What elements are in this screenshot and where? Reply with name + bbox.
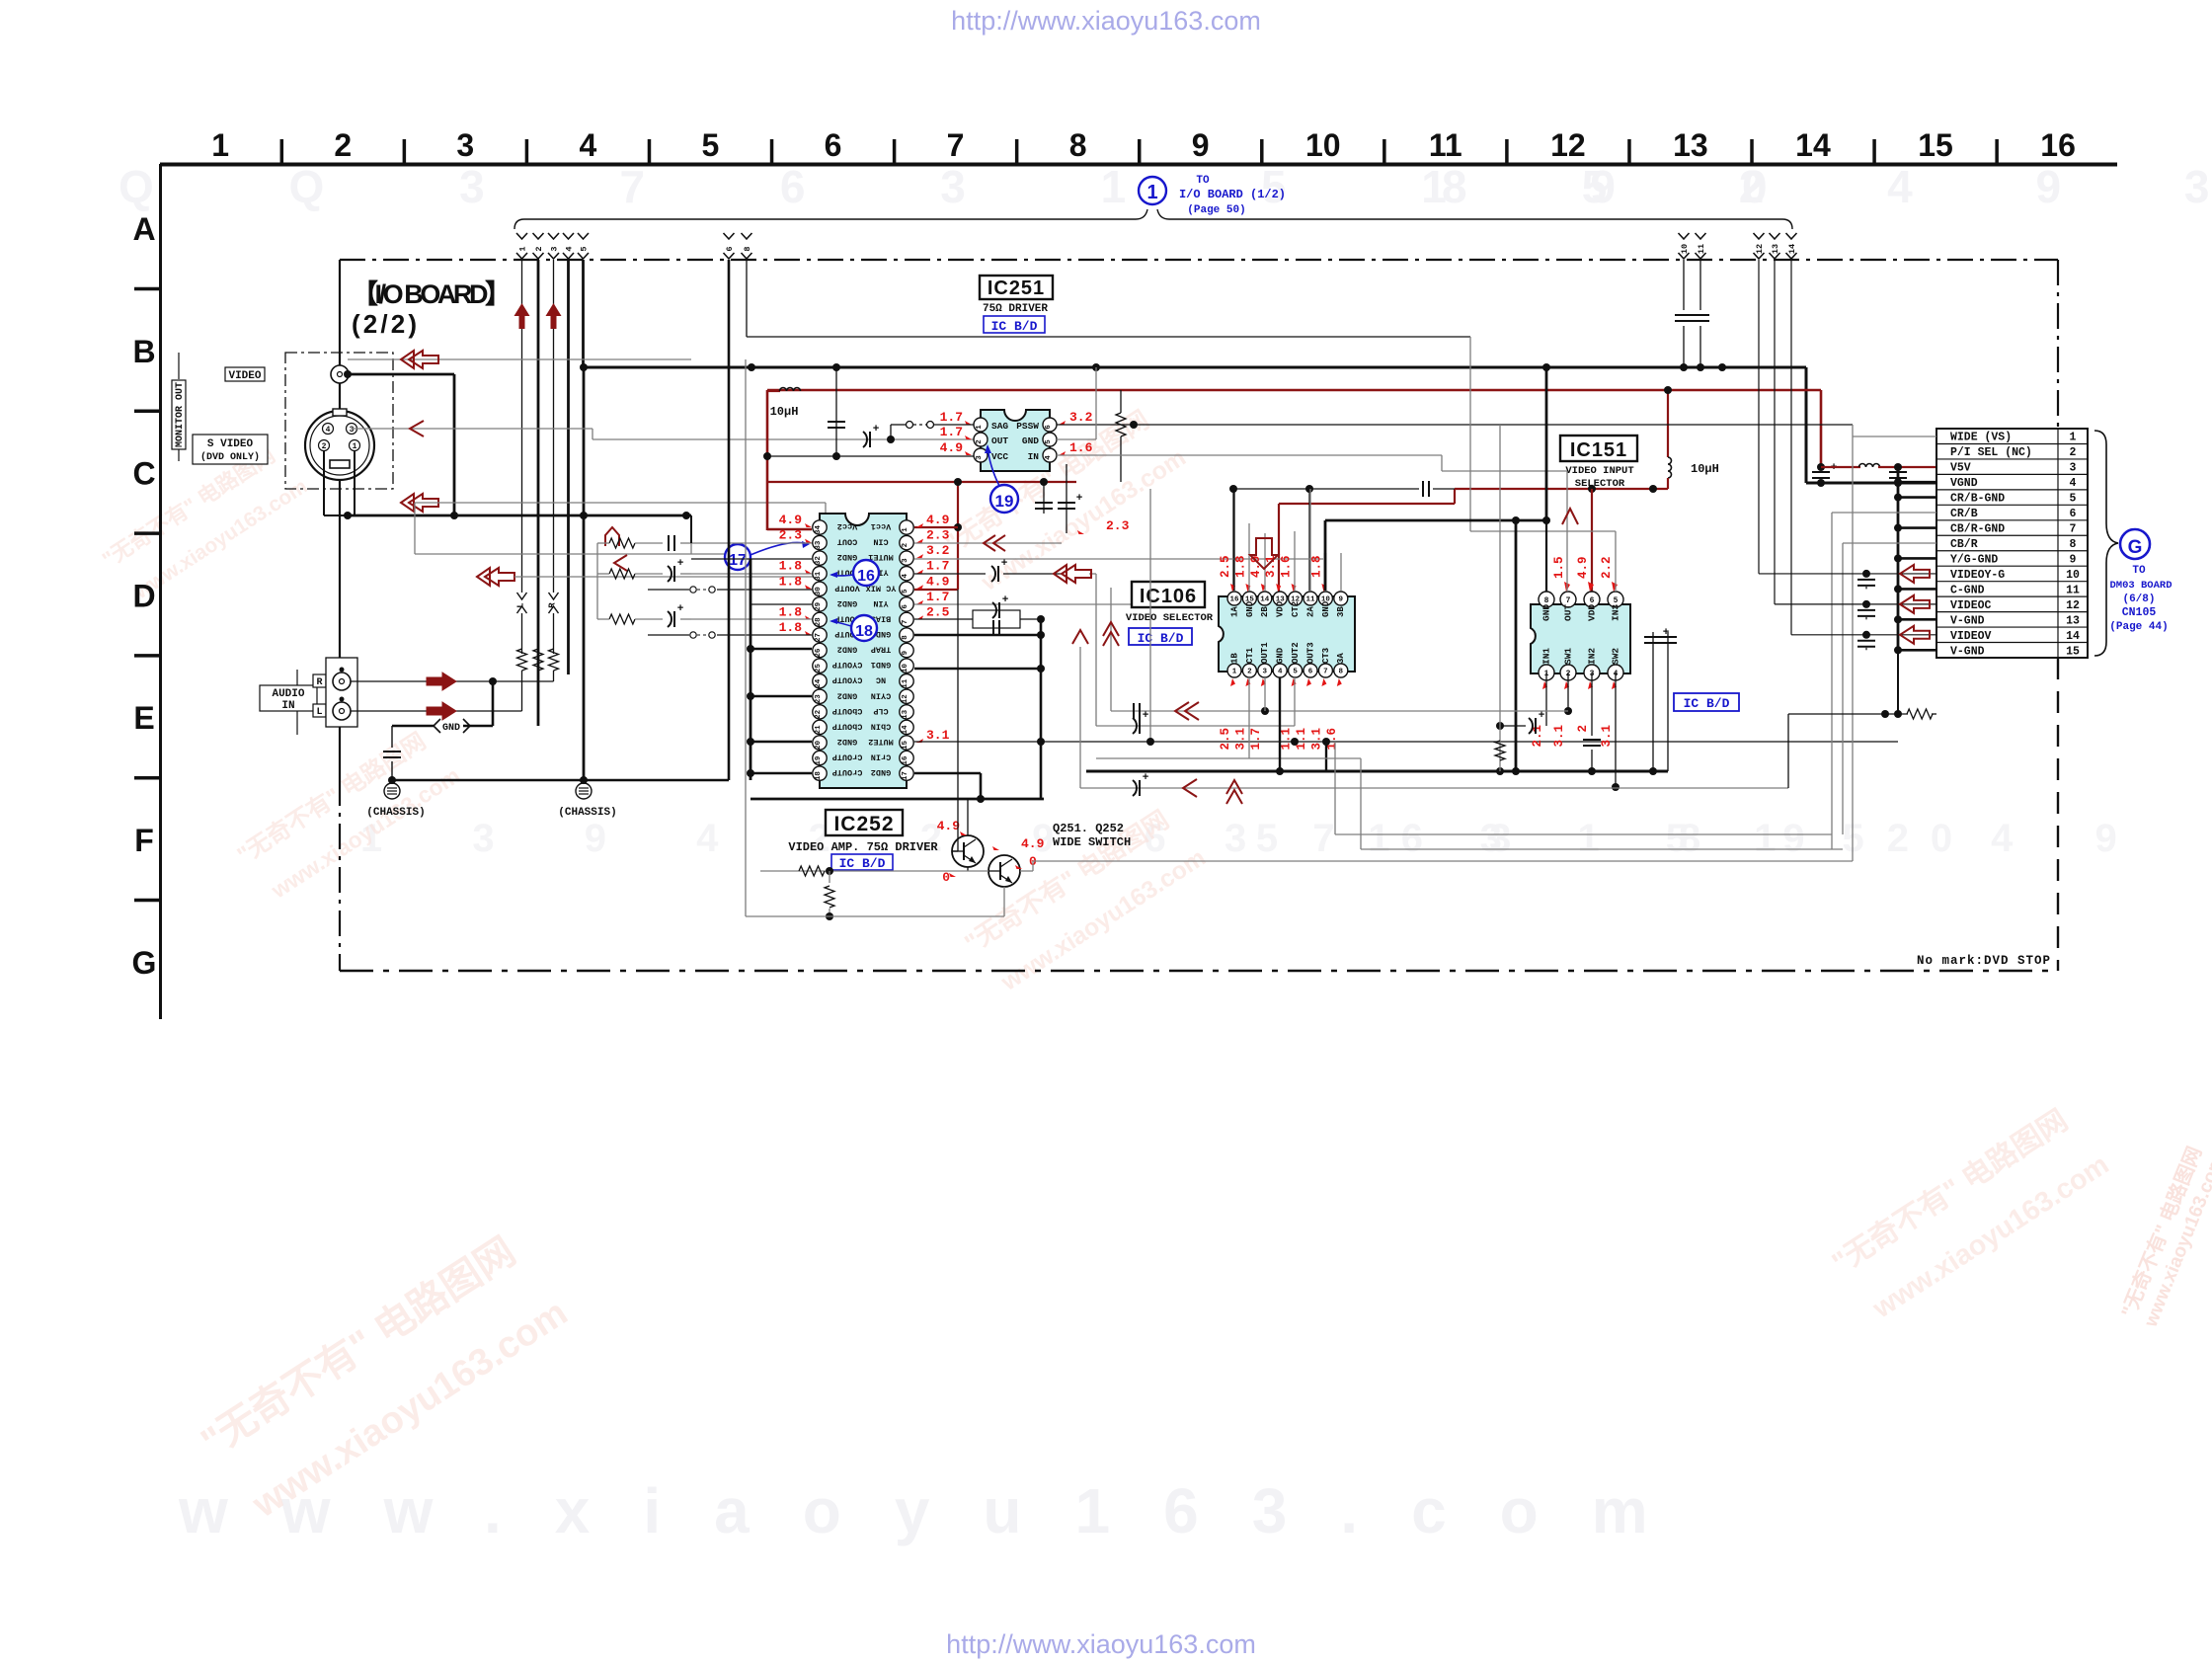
svg-text:GND2: GND2 <box>837 552 857 562</box>
svg-text:13: 13 <box>1673 127 1708 163</box>
s video label <box>193 435 268 464</box>
svg-text:Q251. Q252: Q251. Q252 <box>1053 822 1124 835</box>
svg-text:CB/R: CB/R <box>1950 538 1978 551</box>
svg-text:OUT: OUT <box>1563 604 1574 621</box>
svg-text:http://www.xiaoyu163.com: http://www.xiaoyu163.com <box>946 1629 1256 1659</box>
svg-text:OUT1: OUT1 <box>1260 642 1270 664</box>
svg-text:C-GND: C-GND <box>1950 584 1985 596</box>
svg-text:DM03 BOARD: DM03 BOARD <box>2109 580 2172 592</box>
svg-text:14: 14 <box>2066 630 2080 643</box>
svg-text:CYOUTP: CYOUTP <box>832 660 863 670</box>
svg-text:GND: GND <box>1541 604 1552 621</box>
video RCA jack J1 <box>331 365 349 383</box>
svg-text:COUT: COUT <box>837 537 857 547</box>
wire: resistors on audio lines <box>517 649 527 671</box>
svg-text:28: 28 <box>815 617 823 627</box>
svg-text:+: + <box>1143 710 1149 722</box>
svg-text:IC B/D: IC B/D <box>1684 696 1730 711</box>
IC151 body <box>1531 604 1630 673</box>
svg-text:1: 1 <box>976 425 984 430</box>
svg-text:1.8: 1.8 <box>779 574 803 589</box>
connector pins 6,8 <box>724 233 735 239</box>
svg-text:8: 8 <box>1069 127 1087 163</box>
svg-text:VIDEO AMP. 75Ω DRIVER: VIDEO AMP. 75Ω DRIVER <box>788 840 938 854</box>
svg-text:IC151: IC151 <box>1570 439 1627 461</box>
svg-text:0: 0 <box>942 870 950 885</box>
svg-text:3: 3 <box>456 127 474 163</box>
svg-text:L: L <box>316 707 322 718</box>
svg-text:GND: GND <box>1321 600 1331 617</box>
svg-text:IC B/D: IC B/D <box>1138 631 1184 646</box>
svg-text:G: G <box>2128 537 2143 558</box>
circled 19 <box>990 485 1018 513</box>
svg-text:CT1: CT1 <box>1245 647 1255 664</box>
chassis ground left <box>391 776 393 784</box>
svg-text:VIDEO SELECTOR: VIDEO SELECTOR <box>1126 612 1214 624</box>
video rows feeds with arrows <box>1758 260 1760 574</box>
svg-text:22: 22 <box>815 709 823 719</box>
svg-text:33: 33 <box>815 540 823 550</box>
red to IC106 vdd <box>1454 489 1456 504</box>
svg-text:3A: 3A <box>1336 653 1346 664</box>
svg-text:1B: 1B <box>1229 653 1239 664</box>
svg-text:4: 4 <box>902 573 909 578</box>
svg-text:15: 15 <box>1918 127 1953 163</box>
svg-text:WIDE SWITCH: WIDE SWITCH <box>1053 835 1131 849</box>
svg-text:15: 15 <box>902 740 909 750</box>
svg-text:CbOUTP: CbOUTP <box>832 721 863 731</box>
svg-text:+: + <box>1143 772 1149 784</box>
svg-text:12: 12 <box>1755 244 1765 254</box>
svg-text:CLP: CLP <box>873 706 888 716</box>
q emitter bottom loop <box>829 871 830 883</box>
svg-text:OUT3: OUT3 <box>1305 642 1315 664</box>
svg-text:5: 5 <box>1614 596 1619 605</box>
svg-text:1: 1 <box>1232 669 1237 676</box>
up red arrows filled <box>514 303 530 329</box>
svg-text:GND: GND <box>1276 647 1286 664</box>
svg-text:10: 10 <box>902 664 909 673</box>
watermark pink blocks <box>98 436 311 608</box>
svg-text:18: 18 <box>855 623 873 640</box>
svg-text:CrOUTP: CrOUTP <box>832 767 863 777</box>
svg-text:+: + <box>677 558 684 570</box>
svg-text:VIDEOY-G: VIDEOY-G <box>1950 569 2005 582</box>
svg-text:14: 14 <box>1787 244 1797 254</box>
thick y781 <box>1086 770 1668 773</box>
svg-text:5: 5 <box>702 127 720 163</box>
audio RCA jacks <box>326 658 357 727</box>
svg-text:R: R <box>316 677 322 688</box>
svg-text:IC251: IC251 <box>987 277 1045 299</box>
svg-text:9: 9 <box>1339 596 1344 604</box>
svg-text:TO: TO <box>2132 565 2146 577</box>
svg-text:2.5: 2.5 <box>1219 555 1232 578</box>
svg-text:GND2: GND2 <box>871 767 891 777</box>
IC252 body <box>820 514 907 788</box>
svg-text:D: D <box>132 578 155 613</box>
arrow audio L <box>427 702 456 720</box>
wire: video out trunk <box>344 370 352 378</box>
svg-text:3.1: 3.1 <box>1309 728 1323 751</box>
svg-text:1.8: 1.8 <box>1233 555 1247 578</box>
svg-text:GND2: GND2 <box>837 690 857 700</box>
svg-text:1.6: 1.6 <box>1069 440 1093 455</box>
svg-text:2.5: 2.5 <box>926 604 950 619</box>
svg-text:B: B <box>132 334 155 369</box>
svg-text:11: 11 <box>1305 596 1315 604</box>
svg-text:2.2: 2.2 <box>1600 556 1614 579</box>
svg-text:10: 10 <box>2066 569 2080 582</box>
connector pins 12,13,14 <box>1754 233 1765 239</box>
svg-text:MONITOR OUT: MONITOR OUT <box>175 382 186 447</box>
IC252 label <box>826 810 903 835</box>
svg-text:GND: GND <box>1022 436 1039 446</box>
svg-text:VIDEOC: VIDEOC <box>1950 599 1992 612</box>
svg-text:75Ω DRIVER: 75Ω DRIVER <box>983 303 1048 315</box>
svg-text:4: 4 <box>579 127 596 163</box>
svg-text:11: 11 <box>2066 584 2080 596</box>
signal feeds <box>1852 425 1854 861</box>
svg-text:CT3: CT3 <box>1321 648 1331 664</box>
svg-text:14: 14 <box>1260 596 1270 604</box>
IC106 pin verticals <box>1233 489 1235 591</box>
IC252 left wires <box>691 542 812 544</box>
svg-text:29: 29 <box>815 601 823 611</box>
svg-text:6: 6 <box>725 246 735 251</box>
svg-text:VGND: VGND <box>1950 477 1978 490</box>
svg-text:18: 18 <box>815 771 823 781</box>
svg-text:12: 12 <box>2066 599 2080 612</box>
switch pin27 <box>717 634 812 636</box>
IC151 bd tag <box>1674 693 1739 711</box>
svg-text:VDD: VDD <box>1276 600 1286 617</box>
svg-text:20: 20 <box>815 740 823 750</box>
svg-text:7: 7 <box>1323 669 1328 676</box>
svg-text:CR/B: CR/B <box>1950 508 1978 520</box>
svg-text:5: 5 <box>902 589 909 594</box>
svg-text:No mark:DVD STOP: No mark:DVD STOP <box>1917 954 2051 968</box>
board outline bottom dash-dot <box>340 970 2058 973</box>
video return loop <box>745 359 747 916</box>
svg-text:6: 6 <box>1308 669 1313 676</box>
svg-text:6: 6 <box>1045 425 1053 430</box>
svg-text:2: 2 <box>1247 669 1252 676</box>
svg-text:9: 9 <box>1192 127 1210 163</box>
svg-text:IN2: IN2 <box>1587 648 1598 665</box>
IC251 label <box>980 276 1053 299</box>
svg-text:Y/G-GND: Y/G-GND <box>1950 553 1998 566</box>
svg-text:3B: 3B <box>1336 606 1346 617</box>
svg-text:IN1: IN1 <box>1541 648 1552 665</box>
svg-text:13: 13 <box>902 709 909 719</box>
svg-text:2: 2 <box>534 246 544 251</box>
svg-text:IN: IN <box>1028 451 1040 462</box>
svg-text:1.1: 1.1 <box>1280 728 1294 751</box>
circled 16 <box>853 560 879 586</box>
svg-text:VIDEOV: VIDEOV <box>1950 630 1992 643</box>
svg-text:Vcc2: Vcc2 <box>837 521 857 531</box>
svg-text:R: R <box>548 602 558 608</box>
v5v cap <box>1812 471 1830 473</box>
svg-text:YIN: YIN <box>873 598 888 608</box>
svg-text:8: 8 <box>2070 538 2077 551</box>
svg-text:CIN: CIN <box>873 537 888 547</box>
svg-text:4: 4 <box>326 426 331 435</box>
svg-text:24: 24 <box>815 678 823 688</box>
svg-text:+: + <box>873 424 880 436</box>
IC151 label <box>1560 436 1637 461</box>
svg-text:1: 1 <box>902 527 909 532</box>
svg-text:2: 2 <box>1576 725 1590 733</box>
IC151 pin wires down <box>1545 673 1547 726</box>
svg-text:1.8: 1.8 <box>779 620 803 635</box>
svg-text:2: 2 <box>322 442 327 451</box>
svg-text:1: 1 <box>518 246 528 251</box>
svg-text:E: E <box>133 700 154 736</box>
svg-text:8 9 2 4 9: 8 9 2 4 9 <box>1679 817 2153 860</box>
callout bracket to I/O board 1/2 <box>514 209 1147 229</box>
svg-text:12: 12 <box>1550 127 1586 163</box>
svg-text:IC B/D: IC B/D <box>991 319 1038 334</box>
svg-text:IN3: IN3 <box>1611 604 1621 621</box>
svg-text:F: F <box>134 823 154 858</box>
wire: video top loop gray <box>348 358 446 360</box>
cap into pin2 <box>863 432 867 447</box>
IC252 right wires <box>914 542 1062 544</box>
svg-text:6: 6 <box>825 127 842 163</box>
svg-text:(CHASSIS): (CHASSIS) <box>366 807 425 819</box>
svg-text:OUT2: OUT2 <box>1291 642 1301 664</box>
svg-text:PSSW: PSSW <box>1016 421 1039 432</box>
main thick horiz trunk y372 <box>583 366 1806 369</box>
red branch y488 <box>767 481 1076 483</box>
svg-text:6: 6 <box>2070 508 2077 520</box>
svg-text:14: 14 <box>902 725 909 735</box>
svg-text:NC: NC <box>876 675 886 685</box>
svg-text:7: 7 <box>2070 523 2077 536</box>
connector dash-dot box <box>285 353 393 489</box>
svg-text:MUTE2: MUTE2 <box>868 737 894 747</box>
mid arrows <box>1062 565 1091 583</box>
red net right: y495 <box>1455 488 1668 490</box>
circled G <box>2120 529 2150 559</box>
gray returns rows 6/8 <box>1335 833 1832 835</box>
svg-text:IC106: IC106 <box>1140 586 1197 607</box>
svg-text:1: 1 <box>2070 432 2077 444</box>
caps right of 19 <box>1043 482 1045 514</box>
svg-text:GND2: GND2 <box>837 737 857 747</box>
svg-text:26: 26 <box>815 648 823 658</box>
svg-text:4.9: 4.9 <box>1021 836 1045 851</box>
monitor out label <box>178 353 180 379</box>
R L labels <box>313 674 326 687</box>
svg-text:4.9: 4.9 <box>926 574 950 589</box>
svg-text:2.3: 2.3 <box>1106 518 1130 533</box>
svg-text:GND: GND <box>1245 600 1255 617</box>
svg-text:4.9: 4.9 <box>937 819 961 833</box>
svg-text:VOUTP: VOUTP <box>834 583 860 593</box>
pins10-11 caps <box>1683 260 1685 310</box>
right caps near IC151 <box>1652 632 1654 771</box>
svg-text:31: 31 <box>815 571 823 581</box>
svg-text:OUT: OUT <box>991 436 1008 446</box>
svg-text:2: 2 <box>334 127 352 163</box>
svg-text:4: 4 <box>565 246 575 251</box>
svg-text:(DVD ONLY): (DVD ONLY) <box>200 451 260 463</box>
svg-text:10µH: 10µH <box>1691 462 1719 476</box>
wire: s-video Y gray <box>352 428 592 430</box>
svg-text:(6/8): (6/8) <box>2122 594 2155 605</box>
inductor 10uH top <box>767 390 780 392</box>
svg-text:A: A <box>132 211 155 247</box>
svg-text:17: 17 <box>729 552 747 569</box>
IC251 body <box>981 410 1050 471</box>
thick gnd stubs left <box>750 648 812 651</box>
wire: audio L <box>351 710 522 712</box>
black part of y495 with cap <box>1233 488 1419 490</box>
svg-text:3: 3 <box>976 455 984 460</box>
svg-text:CYIN: CYIN <box>871 690 891 700</box>
svg-text:V5V: V5V <box>1950 462 1971 475</box>
L R tags on wires <box>517 593 527 599</box>
resistor cap rows left-mid <box>609 538 635 548</box>
svg-text:16: 16 <box>1229 596 1239 604</box>
svg-text:8: 8 <box>1544 596 1549 605</box>
svg-text:16: 16 <box>2040 127 2076 163</box>
resistor right <box>1116 413 1126 436</box>
svg-text:CrOUTP: CrOUTP <box>832 752 863 762</box>
cap v5v-vgnd right <box>1889 471 1907 473</box>
svg-text:9: 9 <box>902 650 909 655</box>
svg-text:TO: TO <box>1196 175 1210 187</box>
gnd tag <box>434 719 440 733</box>
circled 17 <box>725 544 750 570</box>
svg-text:VCC: VCC <box>991 451 1008 462</box>
board outline left <box>339 260 341 780</box>
svg-text:13: 13 <box>1771 244 1780 254</box>
svg-text:(CHASSIS): (CHASSIS) <box>558 807 616 819</box>
svg-text:Vcc1: Vcc1 <box>871 521 891 531</box>
svg-text:1.7: 1.7 <box>926 590 949 604</box>
svg-text:GND1: GND1 <box>871 660 891 670</box>
svg-text:【I/O BOARD】: 【I/O BOARD】 <box>352 279 512 309</box>
board outline right dashed <box>2057 260 2059 429</box>
audio in label <box>296 670 298 685</box>
svg-text:4: 4 <box>1045 455 1053 460</box>
svg-text:4.9: 4.9 <box>940 440 964 455</box>
svg-text:1: 1 <box>1146 182 1157 203</box>
svg-text:+: + <box>1539 710 1545 722</box>
pin5 gnd to trunk <box>1057 438 1096 440</box>
svg-text:3: 3 <box>350 426 355 435</box>
svg-text:1.5: 1.5 <box>1552 556 1566 579</box>
horizontal y735 <box>1096 725 1295 727</box>
svg-text:VIDEO INPUT: VIDEO INPUT <box>1565 465 1633 477</box>
svg-text:CbIN: CbIN <box>871 721 891 731</box>
svg-text:1: 1 <box>211 127 229 163</box>
svg-text:www.xiaoyu163.com: www.xiaoyu163.com <box>178 1475 1701 1546</box>
video label <box>225 367 265 381</box>
svg-text:1.8: 1.8 <box>1309 555 1323 578</box>
svg-text:4: 4 <box>1278 669 1283 676</box>
svg-text:10: 10 <box>1680 244 1690 254</box>
svg-text:7: 7 <box>947 127 965 163</box>
svg-text:1.7: 1.7 <box>926 559 949 574</box>
svg-text:4.9: 4.9 <box>1576 556 1590 579</box>
svg-text:8 9 2 4 9 3 2 0 0: 8 9 2 4 9 3 2 0 0 <box>1442 161 2212 212</box>
bias cap network <box>973 610 1020 628</box>
up hollow arrow x620 <box>605 527 619 546</box>
left border column <box>159 164 162 1019</box>
svg-text:32: 32 <box>815 556 823 566</box>
svg-text:6: 6 <box>1590 596 1595 605</box>
up chevrons near IC106 <box>1072 630 1088 644</box>
arrow audio R <box>427 673 456 690</box>
wire pin6 3.2 long <box>1057 424 1853 426</box>
cap near coil <box>835 367 837 456</box>
svg-text:16: 16 <box>902 755 909 765</box>
svg-text:1.6: 1.6 <box>1280 555 1294 578</box>
up chevron below IC151 label <box>1562 509 1578 524</box>
svg-text:2A: 2A <box>1305 606 1315 617</box>
under-table resistor line <box>1788 713 1908 715</box>
horizontal y798 <box>1080 787 1788 789</box>
svg-text:3.1: 3.1 <box>926 728 950 743</box>
svg-text:2.5: 2.5 <box>1219 728 1232 751</box>
IC251 bd tag <box>984 316 1045 333</box>
svg-text:2: 2 <box>976 439 984 444</box>
thick y527 <box>1325 519 1546 522</box>
IC251 switch <box>907 422 913 429</box>
svg-text:+: + <box>1001 558 1008 570</box>
svg-text:SW2: SW2 <box>1611 648 1621 665</box>
chassis ground right <box>583 776 585 784</box>
svg-text:L: L <box>516 602 526 607</box>
wire: audio R to pin <box>351 680 554 682</box>
svg-text:CR/B-GND: CR/B-GND <box>1950 493 2005 506</box>
svg-text:+: + <box>677 603 684 615</box>
svg-text:G: G <box>132 945 157 981</box>
svg-text:11: 11 <box>1697 244 1706 254</box>
svg-text:(Page 50): (Page 50) <box>1187 204 1245 216</box>
switch pin30 <box>717 589 812 591</box>
v5v coil feed <box>1821 466 1860 468</box>
svg-text:19: 19 <box>815 755 823 765</box>
svg-text:3.1: 3.1 <box>1233 728 1247 751</box>
y538 to IC151 area <box>1470 530 1616 532</box>
svg-text:+: + <box>1002 594 1009 606</box>
svg-text:3.2: 3.2 <box>1069 410 1093 425</box>
svg-text:10: 10 <box>1305 127 1341 163</box>
svg-text:V-GND: V-GND <box>1950 614 1985 627</box>
svg-text:3: 3 <box>902 558 909 563</box>
svg-text:8: 8 <box>902 635 909 640</box>
svg-text:30: 30 <box>815 587 823 596</box>
svg-text:SELECTOR: SELECTOR <box>1575 478 1625 490</box>
svg-text:3: 3 <box>2070 462 2077 475</box>
audio gnd bus <box>489 677 497 685</box>
svg-text:3: 3 <box>1263 669 1268 676</box>
transistor Q251 <box>952 835 984 867</box>
svg-text:+: + <box>1076 493 1083 505</box>
ruler top <box>160 163 2117 167</box>
svg-text:C: C <box>132 456 155 492</box>
svg-text:12: 12 <box>902 694 909 704</box>
svg-text:3.2: 3.2 <box>926 543 950 558</box>
IC106 label <box>1132 582 1205 607</box>
svg-text:5: 5 <box>1293 669 1298 676</box>
